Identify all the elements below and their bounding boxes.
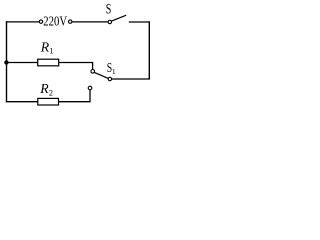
wire: top from left corner to source terminal — [6, 21, 40, 23]
wire: top from source to switch S — [72, 21, 108, 23]
svg-text:R: R — [39, 82, 49, 97]
resistor R1 box — [38, 59, 59, 66]
wire: R2 row left — [6, 101, 38, 103]
svg-text:R: R — [40, 41, 50, 56]
wire: R2 row right to corner — [59, 101, 91, 103]
svg-text:1: 1 — [112, 67, 116, 76]
wire: top right segment — [129, 21, 150, 23]
node junction dot — [4, 60, 8, 64]
wire: left vertical — [6, 21, 8, 102]
svg-text:220V: 220V — [43, 15, 67, 30]
switch S blade — [111, 15, 126, 21]
switch S1 pivot circle — [108, 77, 111, 80]
svg-text:1: 1 — [49, 46, 53, 55]
wire: lower contact down to R2 row — [89, 90, 91, 102]
wire: R1 row right to corner and down — [59, 63, 93, 70]
wire: S1 common to right wire — [112, 78, 151, 80]
svg-text:S: S — [106, 2, 112, 18]
wire: R1 row left — [7, 62, 38, 64]
background — [0, 0, 160, 113]
source terminal left circle — [39, 20, 42, 23]
source terminal right circle — [69, 20, 72, 23]
switch S1 upper contact circle — [91, 70, 95, 74]
svg-text:2: 2 — [49, 89, 53, 98]
wire: right vertical — [148, 21, 150, 79]
switch S1 blade — [94, 72, 108, 78]
switch S pivot circle — [108, 20, 111, 23]
resistor R2 box — [38, 98, 59, 105]
switch S1 lower contact circle — [88, 86, 92, 90]
